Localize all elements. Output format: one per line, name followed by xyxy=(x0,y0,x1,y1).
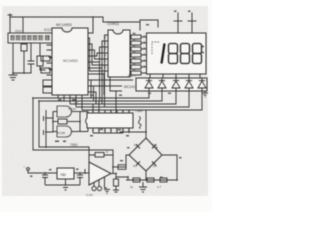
svg-text:CD4511: CD4511 xyxy=(107,22,119,26)
resistor R8 vertical xyxy=(115,177,117,179)
svg-text:D4: D4 xyxy=(153,164,157,168)
svg-text:MC14553: MC14553 xyxy=(63,59,78,63)
transistor cathode bars xyxy=(146,80,205,82)
op-amp output node xyxy=(111,173,116,175)
oscillator gate U2A xyxy=(57,106,72,117)
display pin specks xyxy=(144,36,146,68)
display digit 1 xyxy=(162,44,165,64)
trimmer stub B xyxy=(98,180,100,186)
wires opamp to bridge xyxy=(113,166,126,168)
pin number specks IC2 left xyxy=(104,36,105,68)
crystal X1 32768 xyxy=(58,119,67,124)
bridge top wire xyxy=(145,110,147,138)
node V+ stub B xyxy=(191,13,193,32)
IC1 left pin stubs xyxy=(47,33,52,93)
wire top stub xyxy=(9,14,11,17)
connector squiggle xyxy=(139,117,141,129)
wire staircase extensions xyxy=(99,62,101,101)
placeholder box 点击浏览下一页 xyxy=(8,33,52,43)
svg-text:IC12: IC12 xyxy=(44,28,51,32)
wire IC2 bottom loop xyxy=(104,73,122,113)
svg-text:D3: D3 xyxy=(133,164,137,168)
resistor R4 (IC1 left pin) xyxy=(41,68,50,73)
svg-text:7560: 7560 xyxy=(70,143,78,147)
ground G4 xyxy=(104,190,110,194)
IC3 top pins xyxy=(93,101,129,113)
bridge bottom wire xyxy=(145,171,147,180)
display LED module xyxy=(147,33,207,74)
capacitor C3 xyxy=(46,112,53,119)
svg-text:0.1%: 0.1% xyxy=(86,193,93,197)
IC3 bottom pins xyxy=(93,128,129,133)
left frame wire A xyxy=(33,98,113,155)
transistor Q2 xyxy=(158,78,166,91)
resistor R2 branch xyxy=(39,43,41,56)
trimmer stub A xyxy=(93,183,95,187)
wire join bottom xyxy=(13,72,31,74)
oscillator gate U2B xyxy=(57,126,72,137)
decimal dots xyxy=(202,46,204,54)
segment resistors Ra-Rg xyxy=(131,35,141,75)
wire rail to bracket xyxy=(103,17,140,22)
trimmer P1 xyxy=(92,186,96,190)
ground stub C xyxy=(105,177,108,188)
IC3 body (scan oscillator IC) xyxy=(86,113,133,128)
wire box feed 2 xyxy=(22,17,24,33)
IC2 left pin stubs xyxy=(106,35,108,71)
transistor Q5 xyxy=(198,78,206,91)
bridge right wire xyxy=(162,155,177,180)
IC1 right pins / wires to IC2 staircase xyxy=(88,17,93,33)
op-amp U4 xyxy=(89,162,111,185)
capacitor C2 branch xyxy=(30,43,32,61)
svg-text:7560: 7560 xyxy=(135,109,143,113)
IC1 pin number marks left xyxy=(53,33,54,89)
placeholder text blobs xyxy=(11,35,50,40)
digit select staircase xyxy=(33,91,149,98)
IC1 bottom pins xyxy=(58,95,82,110)
tiny labels scatter xyxy=(57,101,162,197)
node V+ stub A xyxy=(177,13,179,32)
svg-text:XO2A: XO2A xyxy=(68,107,76,111)
resistor value specks xyxy=(133,33,136,70)
ground G1 xyxy=(9,75,17,80)
capacitor C1 branch xyxy=(12,43,14,73)
terminal input xyxy=(27,168,30,171)
capacitor C6 xyxy=(79,173,81,175)
capacitor C4 xyxy=(46,131,53,134)
IC2 CD4511 body xyxy=(108,30,130,77)
scan background tint xyxy=(2,6,208,196)
svg-text:1512: 1512 xyxy=(15,29,22,33)
display digit 8 (b) xyxy=(181,44,190,64)
svg-text:4.7: 4.7 xyxy=(157,185,162,189)
wire IC1 pin to bus xyxy=(88,80,91,98)
scan grain xyxy=(2,6,208,196)
wire IC2 top feed xyxy=(92,17,94,30)
display digit minus bracket xyxy=(152,42,159,54)
trimmer P2 xyxy=(97,186,101,190)
bridge left wire xyxy=(126,155,129,167)
svg-text:1k: 1k xyxy=(130,185,134,189)
display digit 8 (a) xyxy=(169,44,178,64)
svg-text:1.5: 1.5 xyxy=(74,101,79,105)
resistor R6 (IC1 left pin) xyxy=(43,87,52,93)
svg-text:BATT: BATT xyxy=(128,74,136,78)
svg-text:780: 780 xyxy=(60,173,66,177)
driver strip MC1413 xyxy=(136,78,207,91)
resistor R1 branch xyxy=(23,43,25,44)
wire display bracket xyxy=(140,20,158,30)
capacitor C5 xyxy=(44,173,46,175)
wires resistors to display xyxy=(130,37,147,73)
wire top rail xyxy=(10,17,103,33)
svg-text:D2: D2 xyxy=(153,143,157,147)
svg-text:MC14553: MC14553 xyxy=(56,23,72,27)
regulator output wire xyxy=(74,172,89,174)
bottom bus xyxy=(126,179,177,181)
shunt Rs1 xyxy=(133,178,140,182)
display bottom pin stubs xyxy=(150,74,200,78)
wire strip right tick xyxy=(204,91,206,93)
svg-text:D1: D1 xyxy=(134,143,138,147)
wire osc to IC3 xyxy=(87,128,89,132)
IC1 MC14553 body xyxy=(52,28,88,95)
shunt Rs3 xyxy=(160,178,167,182)
ground G3 xyxy=(62,185,70,190)
ground G5 xyxy=(142,182,144,187)
wire driver inputs xyxy=(91,79,133,81)
bridge rectifier D1-D4 xyxy=(129,138,162,171)
svg-text:XO2B: XO2B xyxy=(57,131,65,135)
resistor R3 (IC1 left pin) xyxy=(41,56,50,61)
IC1 pin number marks right xyxy=(86,34,87,90)
op-amp feedback rail xyxy=(89,155,95,162)
transistor Q1 xyxy=(145,78,153,91)
misc specks xyxy=(30,11,191,178)
display digit 8 (c) xyxy=(193,44,202,64)
svg-text:MC1413: MC1413 xyxy=(124,85,137,89)
resistor R5 (IC1 left pin) xyxy=(43,80,52,86)
transistor Q3 xyxy=(172,78,180,91)
IC3 pin specks xyxy=(92,110,130,131)
left frame wire B xyxy=(39,101,89,155)
shunt Rs2 xyxy=(147,178,154,182)
ground rail bottom left xyxy=(45,184,80,186)
transistor Q4 xyxy=(185,78,193,91)
regulator 7805 xyxy=(57,168,74,179)
